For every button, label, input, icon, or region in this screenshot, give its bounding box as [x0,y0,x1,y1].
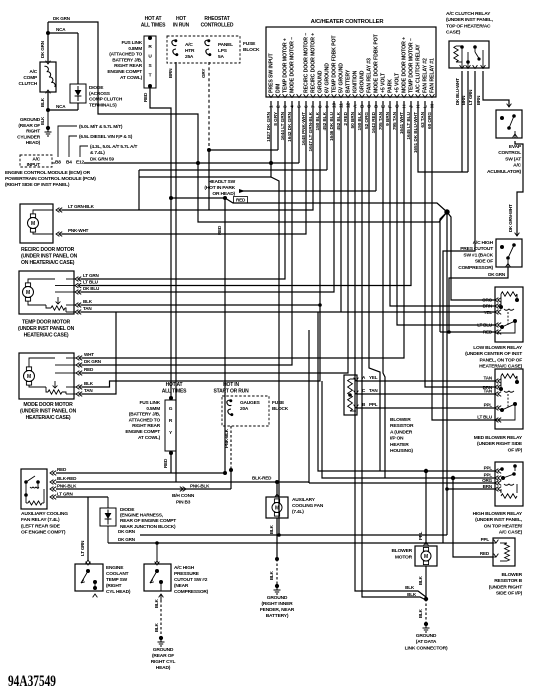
node DK GRN big junction [444,209,449,214]
wire temp TAN / low blower YEL long row [81,311,495,313]
svg-text:GROUND: GROUND [416,633,437,639]
svg-text:TAN: TAN [484,376,493,381]
wire high ORG row [309,482,495,484]
svg-text:COMPRESSOR): COMPRESSOR) [458,265,493,271]
wire junction to low RED [440,212,447,332]
svg-text:LPS: LPS [218,48,228,54]
svg-text:B4: B4 [66,160,72,166]
svg-text:RECIRC DOOR MOTOR +: RECIRC DOOR MOTOR + [311,33,317,93]
svg-text:DK GRN: DK GRN [118,537,136,542]
svg-text:DK GRN 59: DK GRN 59 [90,157,114,163]
svg-text:HOT: HOT [176,16,186,22]
motor M5 mode door motor [19,353,74,399]
wire GRY dashed from PANEL LPS fuse [208,62,210,150]
svg-text:DK GRN: DK GRN [53,16,71,21]
wire pin9 452 BLK [326,101,328,170]
node aux fan tap on BLK-RED [275,480,279,484]
svg-text:AT COWL): AT COWL) [120,75,143,81]
svg-text:ON TOP HEATER/: ON TOP HEATER/ [484,523,523,529]
wire pin8 150 BLK [82,101,320,387]
wire junction to low ORG [447,212,495,300]
switch S4 A/C high pressure cutout sw 2 [156,543,158,561]
svg-text:PNK-WHT: PNK-WHT [68,228,89,233]
svg-text:FUSE: FUSE [272,400,285,406]
wire DK GRN 59 [52,162,55,164]
svg-text:PPL: PPL [481,537,490,542]
wire DK GRN from cutout sw1 [449,267,508,332]
svg-text:COOLING FAN: COOLING FAN [292,503,324,509]
wire B PPL med row [357,407,495,409]
svg-text:(BATTERY J/B,: (BATTERY J/B, [129,412,161,418]
svg-text:L: L [423,105,429,108]
svg-text:COMPRESSOR): COMPRESSOR) [174,589,209,595]
ECM option callout 5.0L [58,126,77,157]
resistor R2 blower resistor B [493,538,515,566]
motor M3 recirc door motor [20,204,53,243]
svg-text:M: M [424,554,428,560]
svg-text:NCA: NCA [56,27,66,32]
svg-text:(UNDER INST PANEL,: (UNDER INST PANEL, [446,17,494,23]
svg-text:25A: 25A [185,54,194,60]
svg-text:SW #1 (BACK: SW #1 (BACK [463,252,493,258]
svg-text:(REAR OF: (REAR OF [152,653,174,659]
svg-text:BLK: BLK [154,622,159,632]
wire BLK-RED aux relay row [56,481,309,483]
svg-text:A/C CLUTCH RELAY: A/C CLUTCH RELAY [446,11,491,17]
svg-text:MODE DOOR FDBK POT: MODE DOOR FDBK POT [374,33,380,93]
ground G3 rear of right cyl head [159,636,163,640]
svg-text:HIGH BLOWER RELAY: HIGH BLOWER RELAY [473,511,523,517]
svg-text:MODE DOOR MOTOR +: MODE DOOR MOTOR + [402,37,408,93]
svg-text:PANEL, ON TOP OF: PANEL, ON TOP OF [480,357,523,363]
wire pinJ 1645 LT BLU temp LT BLU [81,101,411,286]
svg-text:(AT DATA: (AT DATA [416,639,437,645]
svg-text:RIGHT REAR: RIGHT REAR [132,423,161,429]
wire pin5 [298,101,300,163]
svg-text:CONTROLLED: CONTROLLED [201,23,234,29]
svg-text:DK GRN: DK GRN [40,40,45,58]
wire PPL res B [443,542,493,544]
svg-text:COMP CLUTCH: COMP CLUTCH [89,97,123,103]
wire LT GRN relay pin3 [443,71,475,543]
node high PPL2 junction [451,476,455,480]
wire high BRN row [447,488,495,490]
svg-text:A/C: A/C [29,69,37,75]
wire pinF 9 BRN low blower BRN [390,101,495,306]
wire BLK dashed sw2 to ground [159,594,164,597]
A/C comp clutch L1 [40,62,56,92]
svg-text:T: T [149,73,152,79]
svg-text:EVAP: EVAP [509,144,522,150]
svg-text:TEMP DOOR MOTOR −: TEMP DOOR MOTOR − [409,38,415,93]
svg-text:DK GRN-WHT: DK GRN-WHT [508,204,513,232]
svg-text:A/C: A/C [513,163,521,169]
svg-text:FUS LINK: FUS LINK [121,40,142,46]
svg-text:BATTERY): BATTERY) [266,613,289,619]
svg-text:(ATTACHED TO: (ATTACHED TO [109,52,142,58]
svg-text:TAN: TAN [83,306,92,311]
svg-text:FUSE: FUSE [243,41,256,47]
wire pin2 8 GRY [277,101,279,150]
resistor R1 blower resistor A [344,375,357,415]
wire LT GRN aux relay row [56,496,108,498]
relay K5 auxiliary cooling fan relay [21,469,47,509]
wire PNK-BLK aux relay row [56,488,231,490]
svg-text:OR HEAD): OR HEAD) [212,191,235,197]
node RED bus junction [223,196,227,200]
wire pin4 1642 DK GRN [82,101,292,365]
node DK GRN on low RED row [447,330,451,334]
svg-text:A/C HIGH: A/C HIGH [174,565,195,571]
svg-text:(ACROSS: (ACROSS [89,91,111,97]
svg-text:START OR RUN: START OR RUN [213,389,249,395]
svg-text:RED: RED [236,198,246,203]
wire RED from fus link 2 [170,453,172,473]
diode D1 across comp clutch terminals [70,84,86,103]
wire NCA bottom [48,109,78,111]
svg-text:(7.4L): (7.4L) [292,509,304,515]
svg-text:ON HEATER/A/C CASE): ON HEATER/A/C CASE) [21,260,75,266]
svg-text:(NEAR: (NEAR [174,583,189,589]
svg-text:BLK: BLK [40,97,45,107]
svg-text:FAN RELAY #3: FAN RELAY #3 [367,58,373,93]
wire pin11 452 BLK / mode TAN riser [340,101,342,312]
svg-text:PPL: PPL [418,531,423,540]
svg-text:ORG: ORG [482,298,492,303]
svg-text:IN RUN: IN RUN [173,23,190,29]
svg-text:LT BLU: LT BLU [83,280,99,285]
svg-text:A/C/HEATER CONTROLLER: A/C/HEATER CONTROLLER [311,19,385,25]
wire RED from fuse link to fus link 2 [150,88,171,398]
svg-text:(UNDER INST PANEL ON: (UNDER INST PANEL ON [21,254,78,260]
potentiometer mode door fdbk [48,390,62,394]
svg-text:GROUND: GROUND [20,117,41,123]
wire junction down pres sw circuit [446,212,448,535]
svg-text:GRY: GRY [201,69,206,78]
wire GRY to controller pin 2 [209,149,278,151]
svg-text:12: 12 [346,103,352,108]
svg-text:DK GRN: DK GRN [488,272,506,277]
svg-text:(5.0L M/T & 5.7L M/T): (5.0L M/T & 5.7L M/T) [79,124,123,130]
relay K4 high blower relay [495,462,523,506]
svg-text:RED: RED [57,467,67,472]
svg-text:RED: RED [163,458,168,468]
svg-text:CASE): CASE) [446,30,461,36]
fuse A/C HTR 25A [172,40,177,46]
svg-text:SIDE OF: SIDE OF [475,259,493,265]
svg-text:HOT AT: HOT AT [166,382,183,388]
svg-text:BRN: BRN [476,96,481,105]
svg-text:COOLANT: COOLANT [106,571,129,577]
svg-text:M: M [27,374,31,380]
svg-text:(REAR OF: (REAR OF [18,123,40,129]
svg-text:HEATER/A/C CASE): HEATER/A/C CASE) [24,333,69,339]
svg-text:HEATER: HEATER [390,442,409,448]
svg-text:(UNDER RIGHT SIDE: (UNDER RIGHT SIDE [477,441,523,447]
svg-text:RED: RED [483,330,493,335]
ECM U2 A/C input connector [20,155,52,167]
svg-text:PRES CUTOUT: PRES CUTOUT [460,246,493,252]
wire DK BLU-WHT relay pin [461,71,463,172]
svg-text:PNK-BLK: PNK-BLK [224,428,229,448]
node sw2 tap [155,541,159,545]
svg-text:TEMP SW: TEMP SW [106,577,128,583]
svg-text:5V GROUND: 5V GROUND [339,63,345,93]
wire BLK dashed to ground [425,599,427,622]
svg-text:DIM: DIM [276,84,282,93]
svg-text:TEMP DOOR FDBK POT: TEMP DOOR FDBK POT [332,35,338,93]
svg-text:A/C: A/C [32,157,40,163]
svg-text:(RIGHT: (RIGHT [106,583,122,589]
svg-text:CLUTCH: CLUTCH [18,81,37,87]
svg-text:BLK: BLK [40,117,45,125]
svg-text:LT GRN: LT GRN [80,541,85,556]
svg-text:RIGHT: RIGHT [26,129,40,135]
svg-text:RESISTOR B: RESISTOR B [494,578,522,584]
svg-text:BLK: BLK [418,575,423,585]
node RED bus bottom [223,471,227,475]
ECM option callout 6.5L [69,136,77,157]
svg-text:ALL TIMES: ALL TIMES [141,23,166,29]
svg-text:(RIGHT SIDE OF INST PANEL): (RIGHT SIDE OF INST PANEL) [5,182,70,188]
relay K2 low blower relay [495,287,523,342]
svg-text:LT GRN: LT GRN [57,492,73,497]
svg-text:CYLINDER: CYLINDER [17,134,41,140]
ground G4 right inner fender [275,584,279,588]
svg-text:11: 11 [339,103,345,108]
svg-text:BLOWER: BLOWER [501,572,522,578]
wire pinD 1643 RED headlt [375,101,377,191]
svg-text:RED: RED [84,367,94,372]
node GRY junction [207,148,211,152]
wire pinE 705 TAN high blower PPL2 row [383,101,385,478]
svg-text:GROUND: GROUND [360,70,366,93]
wire RED to right junction [171,197,225,199]
svg-text:RED: RED [143,92,148,102]
node high BRN tap [445,487,449,491]
svg-text:BLOCK: BLOCK [272,406,289,412]
svg-text:CONTROL: CONTROL [498,150,521,156]
svg-text:ATTACHED TO: ATTACHED TO [129,417,161,423]
wire pin12 2 RED [82,101,348,373]
svg-text:BRN: BRN [168,68,173,78]
svg-text:(HOT IN PARK: (HOT IN PARK [204,185,235,191]
svg-text:DK GRN: DK GRN [84,359,102,364]
svg-text:(6.5L DIESEL VIN F,P & S): (6.5L DIESEL VIN F,P & S) [79,134,133,140]
svg-text:M: M [430,104,436,108]
svg-text:MED BLOWER RELAY: MED BLOWER RELAY [474,435,523,441]
wire pin3 1644 LT GRN [81,101,285,279]
svg-text:DK BLU: DK BLU [83,286,100,291]
node PNK-BLK junction [229,468,233,472]
wire pin7 1647 LT GRN-BLK [62,101,313,210]
wire pin9 dim feed [139,169,327,171]
wire RED aux relay row [56,472,225,474]
svg-text:(UNDER RIGHT: (UNDER RIGHT [489,584,522,590]
svg-text:PNK-BLK: PNK-BLK [57,484,77,489]
svg-text:A/C HIGH: A/C HIGH [473,240,494,246]
svg-text:PARK: PARK [388,79,394,93]
svg-text:CUTOUT SW #2: CUTOUT SW #2 [174,577,208,583]
wire DK GRN row 543 [108,542,443,544]
svg-text:(UNDER INST PANEL ON: (UNDER INST PANEL ON [18,326,75,332]
wire pinK 1651 DK BLU-WHT to clutch relay [418,101,468,172]
svg-text:RIGHT REAR: RIGHT REAR [114,63,143,69]
svg-text:(UNDER INST PANEL ON: (UNDER INST PANEL ON [20,409,77,415]
wire pinA 50 BRN to blower ground [355,101,426,597]
node pin8 temp BLK tap [318,303,322,307]
svg-text:BLOWER: BLOWER [391,548,412,554]
svg-text:WHT: WHT [84,352,94,357]
svg-text:INPUT: INPUT [27,162,41,168]
svg-text:CYL HEAD): CYL HEAD) [106,589,131,595]
node high PPL junction blower [424,469,428,473]
motor M4 temp door motor [19,271,74,314]
svg-text:G: G [395,104,401,108]
svg-text:YEL: YEL [484,310,493,315]
svg-text:TAN: TAN [84,388,93,393]
svg-text:COMP: COMP [23,75,38,81]
wire pin10 1646 DK BLU [81,101,334,292]
wire LT GRN to engine coolant temp sw [87,497,89,560]
svg-text:REAR OF ENGINE COMPT: REAR OF ENGINE COMPT [120,518,176,524]
ground G2 at data link connector [424,622,428,626]
svg-text:BLK: BLK [418,608,423,618]
wire NCA top [48,32,78,34]
svg-text:TERMINALS): TERMINALS) [89,102,117,108]
svg-text:GROUND: GROUND [267,595,288,601]
svg-text:MODE DOOR MOTOR −: MODE DOOR MOTOR − [290,37,296,93]
svg-text:BLK: BLK [407,592,417,597]
svg-text:LT GRN: LT GRN [83,273,99,278]
svg-text:BLK: BLK [269,524,274,534]
svg-text:HEAD): HEAD) [156,665,171,671]
svg-text:5A: 5A [218,54,224,60]
node RED junction [169,196,173,200]
wire pinL 63 TAN med BRN row [425,101,495,387]
svg-text:POWERTRAIN CONTROL MODULE (PCM: POWERTRAIN CONTROL MODULE (PCM) [5,176,96,182]
wire pinM 60 ORG med LT BLU row [432,101,495,420]
svg-text:RESISTOR: RESISTOR [390,423,414,429]
svg-text:PNK-BLK: PNK-BLK [190,484,210,489]
node aux fan ground junction [275,557,279,561]
wire BRN from A/C HTR fuse [175,62,177,482]
svg-text:LT BLU: LT BLU [477,415,493,420]
svg-text:BLK: BLK [405,585,415,590]
switch S2 A/C high pres cutout sw #1 [496,239,522,267]
potentiometer temp door fdbk [51,306,65,310]
wire BLK blower motor down [425,566,427,599]
svg-text:TAN: TAN [369,388,378,393]
svg-text:YEL: YEL [369,375,378,380]
svg-text:E12: E12 [76,160,84,166]
svg-text:(4.3L, 5.0L A/T 5.7L A/T: (4.3L, 5.0L A/T 5.7L A/T [90,144,137,150]
svg-text:AT COWL): AT COWL) [138,435,161,441]
svg-text:+5 VOLT: +5 VOLT [381,72,387,93]
svg-text:BRN: BRN [483,484,493,489]
wire C TAN med row [357,393,495,395]
svg-text:PANEL: PANEL [218,42,233,48]
wire pinB 150 BLK to blower ground [362,101,426,600]
svg-text:ENGINE: ENGINE [106,565,124,571]
svg-text:GAUGES: GAUGES [240,400,261,406]
svg-text:B8: B8 [55,160,61,166]
svg-text:GROUND: GROUND [153,647,174,653]
svg-text:6V GROUND: 6V GROUND [325,63,331,93]
wire BRN relay pin2 [467,71,469,172]
svg-text:(ENGINE HARNESS,: (ENGINE HARNESS, [120,513,164,519]
svg-text:HOT AT: HOT AT [145,16,162,22]
svg-text:NCA: NCA [56,104,66,109]
wire pin1 1827 DK GRN [271,101,279,535]
wire DK GRN-WHT evap to cutout sw1 [515,141,523,236]
svg-text:F: F [388,105,394,108]
svg-text:(LEFT REAR SIDE: (LEFT REAR SIDE [21,523,61,529]
svg-text:PRESSURE: PRESSURE [174,571,200,577]
svg-text:G: G [169,406,173,412]
svg-text:PPL: PPL [484,403,493,408]
svg-text:I/P ON: I/P ON [390,436,404,442]
svg-text:DK BLU-WHT: DK BLU-WHT [455,78,460,105]
svg-text:ALL TIMES: ALL TIMES [162,389,187,395]
svg-text:SW (AT: SW (AT [505,156,521,162]
node ECM junction pin1 [269,161,273,165]
node clutch top junction [46,31,50,35]
svg-text:PIN B3: PIN B3 [176,500,191,506]
svg-text:BRN: BRN [483,304,493,309]
svg-text:ENGINE COMPT: ENGINE COMPT [125,429,160,435]
wire BLK-RED riser [308,482,310,483]
wire DK GRN down to clutch [47,33,49,62]
wire DK GRN clutch feed to ECM net [48,22,198,163]
svg-text:FAN RELAY #1: FAN RELAY #1 [430,58,436,93]
svg-text:(RIGHT INNER: (RIGHT INNER [261,601,293,607]
svg-text:GROUND: GROUND [318,70,324,93]
svg-text:PPL: PPL [484,473,493,478]
svg-text:A/C: A/C [185,42,193,48]
svg-text:TAN: TAN [484,389,493,394]
wire RED res B [453,478,493,557]
wire DK GRN net to big junction [198,163,447,222]
node blower ground junction [424,597,428,601]
svg-text:LOW BLOWER RELAY: LOW BLOWER RELAY [473,345,523,351]
wire pinC 52 ORG high blower PPL row [369,101,380,471]
svg-text:PPL: PPL [369,402,378,407]
svg-text:MODE DOOR MOTOR: MODE DOOR MOTOR [23,402,73,408]
svg-text:M: M [26,290,30,296]
svg-text:ACUMULATOR): ACUMULATOR) [487,169,522,175]
svg-text:OF I/P): OF I/P) [508,447,523,453]
svg-text:HOUSING): HOUSING) [390,448,413,454]
svg-text:RED: RED [480,551,490,556]
svg-text:BLK: BLK [83,299,93,304]
ECM option callout 4.3L [80,146,88,157]
svg-text:FAN RELAY (7.4L): FAN RELAY (7.4L) [21,517,60,523]
svg-text:A/C CASE): A/C CASE) [499,530,523,536]
svg-text:OF ENGINE COMPT): OF ENGINE COMPT) [21,530,66,536]
svg-text:M: M [275,506,279,512]
svg-text:(UNDER CENTER OF INST: (UNDER CENTER OF INST [465,351,522,357]
svg-text:AUXILIARY COOLING: AUXILIARY COOLING [21,511,68,517]
svg-text:FAN RELAY #2: FAN RELAY #2 [423,58,429,93]
wire GRY stub down [208,150,210,210]
wire pin6 1648 PNK-WHT [62,101,306,234]
svg-text:(UNDER INST PANEL,: (UNDER INST PANEL, [475,517,523,523]
wire to headlt sw from pin D [239,189,245,193]
svg-text:20A: 20A [240,406,249,412]
wire pinH 1641 WHT mode WHT [82,101,404,358]
svg-text:94A37549: 94A37549 [8,673,56,690]
